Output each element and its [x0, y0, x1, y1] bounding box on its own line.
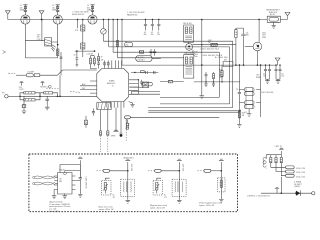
wire AC line	[261, 192, 312, 194]
oval label L4	[143, 82, 153, 86]
resistor R15 below U1	[107, 108, 109, 154]
oval L7	[155, 169, 162, 172]
antenna ANT1	[5, 11, 10, 20]
ground GND14	[177, 200, 182, 203]
svg-text:150: 150	[157, 34, 160, 36]
U1 left pins	[80, 81, 97, 93]
svg-text:AC-DC: AC-DC	[270, 13, 276, 16]
ground GND7	[276, 79, 281, 83]
label osc text	[72, 12, 89, 16]
capacitor C20	[75, 165, 81, 194]
svg-text:CONT: CONT	[19, 89, 24, 91]
wire dashed drop	[125, 130, 127, 142]
box XTAL top right	[266, 10, 280, 23]
svg-text:8 ohm 0.5W: 8 ohm 0.5W	[49, 211, 59, 213]
speaker group A	[97, 159, 135, 211]
IC U2 DIP	[54, 170, 75, 194]
svg-text:SW: SW	[224, 60, 227, 62]
label T3	[244, 74, 274, 114]
svg-text:200: 200	[151, 34, 154, 36]
label dial lamp	[275, 146, 282, 148]
svg-text:OUT 8-10: OUT 8-10	[182, 164, 184, 171]
oval L6	[103, 169, 110, 172]
tube V1	[21, 15, 30, 24]
node post P3	[111, 108, 119, 138]
node post P1	[19, 81, 24, 91]
resistor R17	[208, 40, 217, 46]
capacitor C10 right of U1	[140, 80, 143, 86]
wire screen bus	[201, 20, 203, 96]
wire loop D	[118, 57, 184, 59]
wire C drop	[220, 171, 222, 200]
capacitor C2 above V2	[52, 5, 60, 15]
wire loop drop C	[112, 20, 114, 53]
wire grid drop A	[77, 20, 79, 29]
wire screen drop	[82, 20, 84, 58]
svg-text:4 SP.1 450-0 BK: 4 SP.1 450-0 BK	[261, 92, 274, 94]
ground GND9	[237, 120, 242, 127]
label C20 vertical	[85, 177, 88, 189]
capacitor C6	[157, 19, 160, 36]
svg-text:system - 455 kc 1W: system - 455 kc 1W	[150, 207, 165, 210]
capacitor C19	[235, 88, 241, 94]
resistor R14 below U1	[99, 110, 101, 154]
twisted pair W2	[33, 182, 58, 185]
svg-text:117: 117	[113, 197, 116, 199]
capacitor C23	[56, 52, 62, 75]
ground GND13	[126, 200, 131, 203]
resistor R24	[270, 155, 286, 168]
transformer T4	[121, 179, 135, 196]
wire osc mid vertical	[41, 20, 43, 41]
wire xfmr left	[238, 65, 240, 120]
transformer T3 windings	[239, 88, 260, 109]
svg-text:1 SP.1 PL: 1 SP.1 PL	[275, 146, 282, 148]
wire det line	[194, 81, 240, 83]
svg-text:.05: .05	[73, 54, 75, 56]
U1 right pins	[129, 79, 139, 94]
ground GND6	[265, 79, 270, 83]
svg-text:4 150-1 150: 4 150-1 150	[296, 176, 305, 178]
svg-text:.1: .1	[56, 54, 57, 56]
resistor R12 above U1	[93, 58, 95, 66]
capacitor C3 above V3	[87, 5, 95, 15]
resistor R7	[20, 92, 40, 97]
wire osc loop bottom	[25, 57, 57, 59]
wire loop drop D	[117, 20, 119, 58]
svg-text:CONTROL: 1 745.0 4500 Free: CONTROL: 1 745.0 4500 Free	[247, 194, 270, 197]
svg-text:12BE6: 12BE6	[52, 10, 57, 12]
svg-text:600: 600	[246, 35, 249, 37]
label AC	[247, 194, 270, 197]
transformer T2 box	[184, 53, 194, 78]
svg-text:ALIGN 1620 KC: ALIGN 1620 KC	[72, 13, 85, 16]
resistor R20	[221, 65, 223, 83]
svg-text:1N4007: 1N4007	[294, 186, 300, 188]
wire riser to L2	[59, 75, 61, 96]
capacitor C7	[149, 49, 152, 56]
twisted pair W1	[33, 176, 58, 179]
resistor R5 on drop D	[116, 41, 118, 47]
resistor R9	[40, 92, 58, 97]
potentiometer VR2	[153, 180, 162, 195]
antenna ANT3	[285, 12, 290, 19]
svg-text:150: 150	[263, 76, 266, 78]
svg-text:SPKR: SPKR	[111, 135, 116, 137]
svg-text:COIL: COIL	[37, 39, 41, 41]
wire det return	[130, 86, 143, 88]
oval label L5	[125, 116, 220, 130]
resistor R10	[22, 96, 26, 109]
antenna ANT8	[219, 159, 224, 171]
svg-text:1W: 1W	[101, 59, 104, 61]
wire dots A	[97, 170, 104, 172]
svg-text:4 150-1 150: 4 150-1 150	[296, 168, 305, 170]
svg-text:47: 47	[101, 56, 103, 58]
wire B+ main	[122, 64, 278, 66]
svg-text:4 100-1 1000 44.5 700-4: 4 100-1 1000 44.5 700-4	[200, 48, 219, 50]
svg-text:system - 455 kc 1W: system - 455 kc 1W	[199, 204, 214, 207]
svg-text:1W: 1W	[208, 42, 211, 44]
svg-text:150: 150	[281, 76, 284, 78]
wire V2 drop	[57, 24, 59, 58]
capacitor C5	[151, 19, 154, 36]
resistor R8	[20, 96, 40, 101]
tube V5	[186, 42, 193, 50]
node post P4	[275, 188, 279, 194]
resistor R6 on loop C	[139, 51, 143, 54]
svg-text:7W: 7W	[242, 115, 245, 117]
ground GND12	[78, 194, 83, 197]
oval L8	[204, 169, 211, 172]
terminal J5	[311, 192, 315, 195]
svg-text:400: 400	[144, 34, 147, 36]
oval label L1	[125, 41, 133, 46]
svg-text:DET: DET	[82, 88, 85, 90]
transformer T5	[172, 179, 186, 196]
svg-text:OUT 8-10: OUT 8-10	[130, 164, 132, 171]
ground GND1	[22, 110, 27, 114]
capacitor C13	[205, 72, 208, 82]
svg-text:V.C.: V.C.	[244, 112, 248, 114]
resistor R19	[212, 72, 214, 82]
wire fil bar	[270, 154, 282, 156]
capacitor C1 above V1	[20, 5, 28, 15]
svg-text:L 100MH: L 100MH	[27, 72, 35, 74]
antenna ANT5	[78, 157, 83, 164]
wire pilot drop	[280, 177, 282, 194]
resistor R16	[126, 120, 130, 130]
label box inner	[124, 157, 134, 160]
ground GND10	[52, 190, 57, 199]
ground GND11	[63, 194, 68, 199]
box U1 bottom sub	[97, 103, 111, 110]
capacitor C17 pair	[263, 64, 271, 79]
svg-text:2.2K 1W: 2.2K 1W	[87, 54, 94, 56]
wire loop drop B	[108, 20, 110, 47]
antenna ANT2	[39, 11, 44, 21]
resistor R21	[235, 28, 237, 65]
wire U2 top loop	[60, 165, 80, 178]
inductor L2 line	[8, 70, 97, 77]
wire C feed	[211, 170, 221, 172]
resistor R23	[218, 178, 225, 192]
svg-text:system - 455 kc 1W: system - 455 kc 1W	[99, 208, 114, 211]
wire B+ feed	[75, 50, 95, 52]
speaker group B	[148, 159, 186, 210]
U1 top pins	[104, 60, 122, 68]
svg-text:117: 117	[164, 197, 167, 199]
svg-text:455: 455	[126, 45, 129, 47]
ground GND3	[129, 102, 135, 108]
capacitor C8	[153, 49, 156, 56]
label V4	[262, 32, 267, 38]
resistor R18	[160, 80, 184, 83]
label conv text	[127, 12, 145, 16]
diode bridge X	[143, 82, 149, 88]
wire plate line	[193, 44, 236, 46]
capacitor C14	[205, 82, 208, 87]
antenna ANT4	[275, 58, 280, 65]
note text block	[49, 200, 70, 213]
wire loop A	[103, 41, 232, 107]
wire V1 drop	[24, 24, 26, 58]
oval plug J2	[286, 166, 305, 170]
resistor R22	[238, 111, 244, 118]
label diode	[294, 180, 302, 188]
svg-text:2ND IF 455: 2ND IF 455	[183, 23, 192, 25]
antenna ANT9	[279, 148, 283, 155]
capacitor C4	[144, 19, 147, 36]
label row IF	[200, 48, 219, 50]
resistor R2 osc coil box	[45, 38, 58, 52]
box SW1	[215, 57, 233, 66]
tube V4	[253, 19, 262, 66]
wire top bus	[8, 18, 288, 20]
wire AF line	[20, 95, 97, 97]
V5 pins	[192, 49, 198, 56]
label row IF2	[202, 55, 223, 57]
wire fb pair	[131, 91, 160, 94]
oval plug J4	[286, 174, 305, 178]
svg-text:12BA6: 12BA6	[20, 9, 25, 12]
svg-text:1 CAF 4700 5W: 1 CAF 4700 5W	[85, 177, 88, 189]
coil L9	[263, 155, 270, 169]
wire osc top link	[25, 40, 44, 42]
wire B feed	[161, 170, 179, 172]
wire loop C	[113, 52, 219, 97]
svg-text:OSC ADJ: OSC ADJ	[137, 59, 144, 62]
resistor R4	[81, 43, 85, 49]
antenna ANT7	[177, 159, 182, 171]
svg-text:455 IF: 455 IF	[144, 84, 149, 86]
terminal J1	[2, 93, 20, 98]
ground GND2	[45, 106, 50, 110]
svg-text:386: 386	[59, 181, 62, 183]
wire dots C	[198, 170, 204, 172]
antenna ANT6	[125, 159, 130, 171]
svg-text:.05: .05	[235, 88, 237, 90]
wire B drop	[178, 171, 180, 200]
wire loop B	[109, 47, 230, 104]
U1 bottom pins	[107, 102, 124, 108]
potentiometer VR1	[102, 180, 111, 195]
capacitor C9	[45, 96, 49, 106]
resistor R13	[85, 116, 88, 128]
svg-text:4 150-1 150: 4 150-1 150	[296, 172, 305, 174]
capacitor C12 polarized	[119, 108, 122, 137]
speaker group C	[198, 159, 226, 207]
wire A feed	[110, 170, 128, 172]
tube V3	[88, 15, 97, 24]
capacitor C21	[73, 51, 78, 66]
resistor R1 on V2 drop	[57, 44, 59, 56]
capacitor C22	[97, 53, 103, 69]
IC U1 body	[97, 69, 129, 102]
wire loop drop E	[121, 20, 123, 66]
wire A drop	[127, 171, 129, 200]
resistor R3	[81, 25, 85, 31]
ground GND5	[271, 22, 276, 28]
wire U1 out row	[131, 71, 158, 74]
wire dots B	[148, 170, 155, 172]
svg-text:PADDER 455: PADDER 455	[127, 13, 137, 16]
meter M1 circle	[101, 19, 107, 41]
diode D1	[296, 190, 301, 196]
resistor R26	[280, 155, 285, 176]
oval label L3	[136, 56, 161, 62]
transformer T1 box	[183, 23, 193, 42]
capacitor C18 pair	[275, 64, 285, 79]
capacitor C15	[212, 82, 215, 87]
svg-text:PIN7: PIN7	[219, 77, 223, 79]
wire speaker pair	[148, 110, 241, 112]
label column OUT	[219, 69, 223, 80]
ground GND15	[219, 199, 224, 202]
resistor R25	[275, 155, 286, 172]
oval plug J3	[286, 170, 305, 174]
svg-text:3RD IF 455: 3RD IF 455	[184, 53, 193, 55]
capacitor C11	[92, 109, 95, 116]
capacitor C16	[236, 28, 253, 65]
ground GND4	[200, 96, 205, 99]
wire xfmr right	[260, 65, 262, 117]
label osc coil values	[37, 34, 41, 40]
switch S1 dotted	[46, 85, 80, 92]
tube V2	[53, 15, 62, 24]
dashed enclosure	[29, 154, 238, 212]
node post P2	[40, 81, 49, 88]
ground GND8	[247, 109, 252, 117]
resistor R11 above U1	[87, 54, 97, 69]
svg-text:XFMR: XFMR	[256, 77, 262, 79]
node arrow left edge	[3, 51, 6, 54]
